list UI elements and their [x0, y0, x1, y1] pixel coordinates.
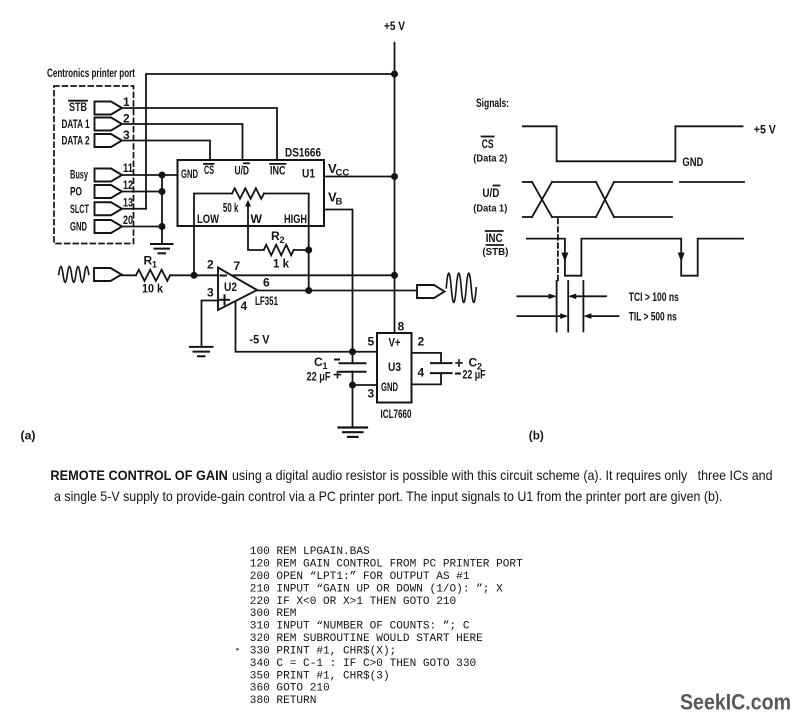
program listing: [250, 546, 523, 707]
svg-text:50 k: 50 k: [223, 201, 239, 215]
svg-text:U/D: U/D: [482, 186, 499, 200]
GND level label: [682, 155, 703, 169]
svg-text:310 INPUT “NUMBER OF COUNTS: ”: 310 INPUT “NUMBER OF COUNTS: ”; C: [250, 621, 470, 633]
GND label: [70, 220, 87, 234]
U3 pin4 wire to C2: [412, 373, 442, 384]
svg-text:Centronics printer port: Centronics printer port: [47, 66, 135, 80]
IC U1 DS1666 box: [178, 160, 325, 226]
pin 7 wire to +5V rail: [232, 274, 395, 276]
node VCC junction: [391, 173, 398, 180]
IC U3 ICL7660 box: [377, 333, 412, 403]
svg-text:+5 V: +5 V: [754, 123, 777, 137]
wire R1 to op-amp pin 2: [170, 274, 218, 276]
svg-text:11: 11: [123, 161, 133, 175]
ground bus vertical wire: [161, 175, 163, 244]
U1 CS pin label: [204, 163, 214, 177]
U1 U/D pin label: [235, 164, 250, 178]
svg-text:320 REM SUBROUTINE WOULD START: 320 REM SUBROUTINE WOULD START HERE: [250, 633, 483, 645]
svg-text:GND: GND: [381, 380, 398, 394]
svg-text:CS: CS: [482, 137, 494, 151]
svg-text:6: 6: [263, 276, 270, 290]
potentiometer loop left wire: [194, 194, 232, 276]
U/D label D overline: [494, 185, 500, 187]
pin 3 number: [207, 286, 214, 300]
potentiometer 50k resistor: [232, 188, 264, 199]
pin 6 output wire: [257, 290, 417, 292]
svg-text:U/D: U/D: [235, 164, 250, 178]
capacitor C2 bottom plate: [431, 372, 452, 374]
wire DATA1 to U/D riser: [122, 124, 243, 160]
TIL label: [629, 310, 677, 324]
svg-text:(Data 2): (Data 2): [473, 153, 507, 165]
node -5V junction: [349, 348, 356, 355]
timing dashed marker line: [557, 219, 559, 282]
SLCT label: [70, 202, 89, 216]
wire VCC to +5V rail: [324, 176, 395, 178]
svg-text:Busy: Busy: [70, 168, 88, 182]
TCI arrow left: [517, 295, 553, 297]
U1 GND pin label: [181, 167, 198, 181]
svg-text:HIGH: HIGH: [284, 212, 307, 226]
CS overline: [204, 163, 214, 165]
+5V rail vertical wire: [394, 43, 396, 333]
U/D signal label: [482, 186, 499, 200]
W wiper label: [251, 212, 263, 226]
STB label: [69, 100, 87, 114]
svg-text:350 PRINT #1, CHR$(3): 350 PRINT #1, CHR$(3): [250, 670, 390, 682]
INC overline: [270, 163, 286, 165]
ground symbol C1: [339, 428, 368, 437]
svg-text:4: 4: [241, 299, 248, 313]
node busy junction: [159, 172, 166, 179]
figure a label: [21, 431, 36, 443]
node junction +5V top: [391, 71, 398, 78]
timing tick 1: [556, 281, 558, 332]
svg-text:LOW: LOW: [197, 212, 219, 226]
C1 value 22 uF: [307, 370, 331, 384]
TCI label: [629, 290, 679, 304]
HIGH terminal label: [284, 212, 307, 226]
V+ pin label: [389, 336, 401, 350]
Centronics port dashed box: [54, 86, 134, 244]
node R2/HIGH junction: [305, 247, 312, 254]
svg-text:U2: U2: [224, 280, 237, 294]
svg-text:5: 5: [368, 335, 375, 349]
svg-text:220 IF X<0 OR X>1 THEN GOTO 21: 220 IF X<0 OR X>1 THEN GOTO 210: [250, 596, 456, 608]
U3 pin3 wire: [353, 384, 378, 386]
svg-text:120 REM GAIN CONTROL FROM PC P: 120 REM GAIN CONTROL FROM PC PRINTER POR…: [250, 559, 523, 571]
timing tick 3: [582, 281, 584, 332]
pin 4 number U3: [418, 365, 425, 379]
svg-text:a single 5-V supply to provide: a single 5-V supply to provide-gain cont…: [54, 488, 723, 504]
capacitor C2 top plate: [431, 362, 452, 364]
capacitor C1 top plate: [340, 362, 366, 364]
svg-text:(STB): (STB): [482, 246, 508, 258]
svg-text:300 REM: 300 REM: [250, 608, 297, 620]
TCI arrow right: [571, 295, 606, 297]
pin 7 number: [234, 259, 241, 273]
svg-text:2: 2: [207, 258, 214, 272]
svg-text:V+: V+: [389, 336, 401, 350]
svg-text:3: 3: [368, 387, 375, 401]
svg-text:REMOTE CONTROL OF GAIN: REMOTE CONTROL OF GAIN: [50, 467, 228, 483]
figure b label: [529, 431, 544, 443]
wire DATA2 to CS riser: [122, 141, 210, 161]
wire PO to bus: [122, 191, 162, 193]
pin 4 wire to -5V node: [236, 301, 378, 352]
wire STB to INC riser: [122, 108, 277, 160]
svg-text:CS: CS: [204, 163, 214, 177]
-5 V label: [250, 333, 271, 347]
connector pin Busy flag: [95, 169, 123, 182]
resistor R1: [136, 270, 170, 281]
input connector flag: [94, 268, 122, 281]
Busy label: [70, 168, 88, 182]
svg-text:20: 20: [123, 213, 133, 227]
C2 label: [469, 356, 483, 372]
INC falling edge arrow 1: [561, 253, 568, 263]
C1 plus sign: [335, 372, 341, 378]
VCC pin label: [328, 161, 349, 179]
svg-text:10 k: 10 k: [142, 282, 163, 296]
svg-text:4: 4: [418, 365, 425, 379]
pin 4 number: [241, 299, 248, 313]
svg-text:200 OPEN “LPT1:” FOR OUTPUT AS: 200 OPEN “LPT1:” FOR OUTPUT AS #1: [250, 571, 470, 583]
LOW terminal label: [197, 212, 219, 226]
node PO junction: [159, 188, 166, 195]
svg-text:2: 2: [280, 235, 285, 245]
C2 value 22 uF: [463, 368, 486, 382]
CS label overline: [482, 136, 494, 138]
op-amp U2 triangle: [218, 268, 257, 311]
svg-text:22 μF: 22 μF: [463, 368, 486, 382]
svg-text:2: 2: [418, 335, 425, 349]
node GND junction: [159, 223, 166, 230]
svg-text:1: 1: [123, 95, 130, 109]
U/D waveform: [523, 182, 744, 217]
svg-text:TIL > 500 ns: TIL > 500 ns: [629, 310, 677, 324]
LF351 part label: [255, 294, 278, 308]
svg-text:SLCT: SLCT: [70, 202, 89, 216]
VB pin label: [328, 190, 343, 208]
U1 INC pin label: [270, 164, 286, 178]
CS waveform: [523, 126, 743, 161]
pin 2 number U3: [418, 335, 425, 349]
svg-text:W: W: [251, 212, 263, 226]
svg-text:U1: U1: [302, 167, 315, 181]
pin number 20: [123, 213, 133, 227]
svg-text:using a digital audio resistor: using a digital audio resistor is possib…: [232, 467, 773, 483]
C1 label: [314, 355, 328, 371]
+5 V supply label: [384, 19, 405, 33]
U1 designator: [302, 167, 315, 181]
svg-text:7: 7: [234, 259, 241, 273]
pin number 3: [123, 128, 130, 142]
pin number 2: [123, 112, 130, 126]
svg-text:1: 1: [152, 260, 157, 270]
svg-text:STB: STB: [69, 100, 87, 114]
U3 designator: [388, 360, 401, 374]
output connector flag: [417, 285, 445, 298]
pin 5 number: [368, 335, 375, 349]
ground symbol op-amp: [190, 347, 213, 356]
wire R2 to HIGH node: [294, 249, 309, 251]
svg-text:22 μF: 22 μF: [307, 370, 331, 384]
wire SLCT to riser: [122, 208, 146, 210]
STB signal label: [482, 246, 508, 258]
svg-text:DATA 1: DATA 1: [62, 117, 90, 131]
R1 label: [144, 254, 158, 270]
svg-text:GND: GND: [181, 167, 198, 181]
wire VB to C1 node: [324, 210, 353, 352]
svg-text:INC: INC: [486, 231, 503, 245]
ICL7660 part label: [381, 407, 412, 421]
svg-text:U3: U3: [388, 360, 401, 374]
DATA 2 label: [62, 134, 90, 148]
svg-text:(a): (a): [21, 431, 36, 443]
50 k value label: [223, 201, 239, 215]
U3 GND pin label: [381, 380, 398, 394]
svg-text:12: 12: [123, 178, 133, 192]
STB label overline: [487, 244, 504, 246]
pin 8 number: [398, 320, 405, 334]
pin 3 number U3: [368, 387, 375, 401]
connector pin STB flag: [95, 102, 123, 115]
svg-text:GND: GND: [682, 155, 703, 169]
plus sign: [220, 295, 229, 304]
ground symbol port bus: [151, 244, 173, 253]
INC falling edge arrow 2: [678, 253, 685, 263]
connector pin DATA 1 flag: [95, 118, 123, 131]
resistor R2: [264, 245, 294, 256]
INC signal label: [486, 231, 503, 245]
wire GND pin to bus: [122, 226, 162, 228]
svg-text:DATA 2: DATA 2: [62, 134, 90, 148]
svg-text:13: 13: [123, 196, 133, 210]
connector pin DATA 2 flag: [95, 134, 123, 147]
DATA 1 label: [62, 117, 90, 131]
svg-text:DS1666: DS1666: [285, 146, 321, 160]
connector pin SLCT flag: [95, 202, 123, 215]
C1 minus sign: [335, 359, 339, 361]
R2 label: [271, 229, 285, 245]
svg-text:340 C = C-1 : IF C>0 THEN GOTO: 340 C = C-1 : IF C>0 THEN GOTO 330: [250, 658, 476, 670]
svg-text:210 INPUT “GAIN UP OR DOWN (1/: 210 INPUT “GAIN UP OR DOWN (1/O): ”; X: [250, 583, 503, 595]
CS signal label: [482, 137, 494, 151]
C2 minus sign: [456, 373, 460, 375]
TIL arrow right: [587, 315, 619, 317]
capacitor C1 bottom plate: [340, 371, 366, 373]
INC waveform: [527, 239, 743, 276]
TIL arrow left: [517, 315, 565, 317]
connector pin GND flag: [95, 220, 123, 233]
C1 wire bottom to ground: [352, 372, 354, 427]
pin number 1: [123, 95, 130, 109]
wire input to R1: [122, 274, 137, 276]
svg-text:TCI > 100 ns: TCI > 100 ns: [629, 290, 679, 304]
wire from +5V rail to SLCT riser: [146, 74, 395, 209]
pin number 11: [123, 161, 133, 175]
input sine symbol: [59, 266, 89, 282]
svg-text:360 GOTO 210: 360 GOTO 210: [250, 683, 330, 695]
STB overline: [69, 100, 87, 102]
svg-text:ICL7660: ICL7660: [381, 407, 412, 421]
pin 6 number: [263, 276, 270, 290]
INC label overline: [486, 230, 503, 232]
Signals: heading: [476, 96, 509, 110]
svg-text:+5 V: +5 V: [384, 19, 405, 33]
svg-text:Signals:: Signals:: [476, 96, 509, 110]
connector pin PO flag: [95, 185, 123, 198]
wire Busy to DS1666 GND pin: [122, 174, 178, 176]
Centronics printer port label: [47, 66, 135, 80]
svg-text:380 RETURN: 380 RETURN: [250, 695, 317, 707]
Data 2 label: [473, 153, 507, 165]
svg-text:PO: PO: [70, 185, 82, 199]
wiper arrow: [245, 200, 251, 207]
wiper wire: [248, 206, 264, 251]
svg-text:100 REM LPGAIN.BAS: 100 REM LPGAIN.BAS: [250, 546, 370, 558]
svg-text:3: 3: [207, 286, 214, 300]
minus sign: [221, 275, 227, 277]
svg-text:(Data 1): (Data 1): [473, 203, 507, 215]
R2 value 1 k: [273, 257, 289, 271]
svg-text:LF351: LF351: [255, 294, 278, 308]
node C1 bottom junction: [349, 382, 356, 389]
svg-text:INC: INC: [270, 164, 286, 178]
output sine symbol: [446, 273, 476, 302]
svg-text:(b): (b): [529, 431, 544, 443]
svg-text:GND: GND: [70, 220, 87, 234]
svg-text:B: B: [336, 197, 343, 208]
svg-text:-5 V: -5 V: [250, 333, 271, 347]
Data 1 label: [473, 203, 507, 215]
U2 designator: [224, 280, 237, 294]
node R1/pot junction: [191, 272, 198, 279]
C2 plus sign: [456, 360, 462, 366]
node output junction: [305, 287, 312, 294]
svg-text:SeekIC.com: SeekIC.com: [680, 690, 791, 715]
DS1666 part label: [285, 146, 321, 160]
pin 2 number: [207, 258, 214, 272]
C1 wire top: [352, 352, 354, 363]
svg-text:1 k: 1 k: [273, 257, 289, 271]
pin number 13: [123, 196, 133, 210]
svg-text:8: 8: [398, 320, 405, 334]
U3 pin2 wire to C2: [412, 353, 442, 363]
potentiometer loop right wire: [264, 194, 309, 291]
D overline: [244, 162, 249, 164]
node pin7 +5V junction: [391, 272, 398, 279]
pin number 12: [123, 178, 133, 192]
+5V level label: [754, 123, 777, 137]
PO label: [70, 185, 82, 199]
pin 3 wire: [202, 301, 219, 347]
svg-text:330 PRINT #1, CHR$(X);: 330 PRINT #1, CHR$(X);: [250, 645, 396, 657]
R1 value 10 k: [142, 282, 163, 296]
timing tick 2: [567, 281, 569, 332]
stray dot before line 330: [236, 648, 238, 650]
